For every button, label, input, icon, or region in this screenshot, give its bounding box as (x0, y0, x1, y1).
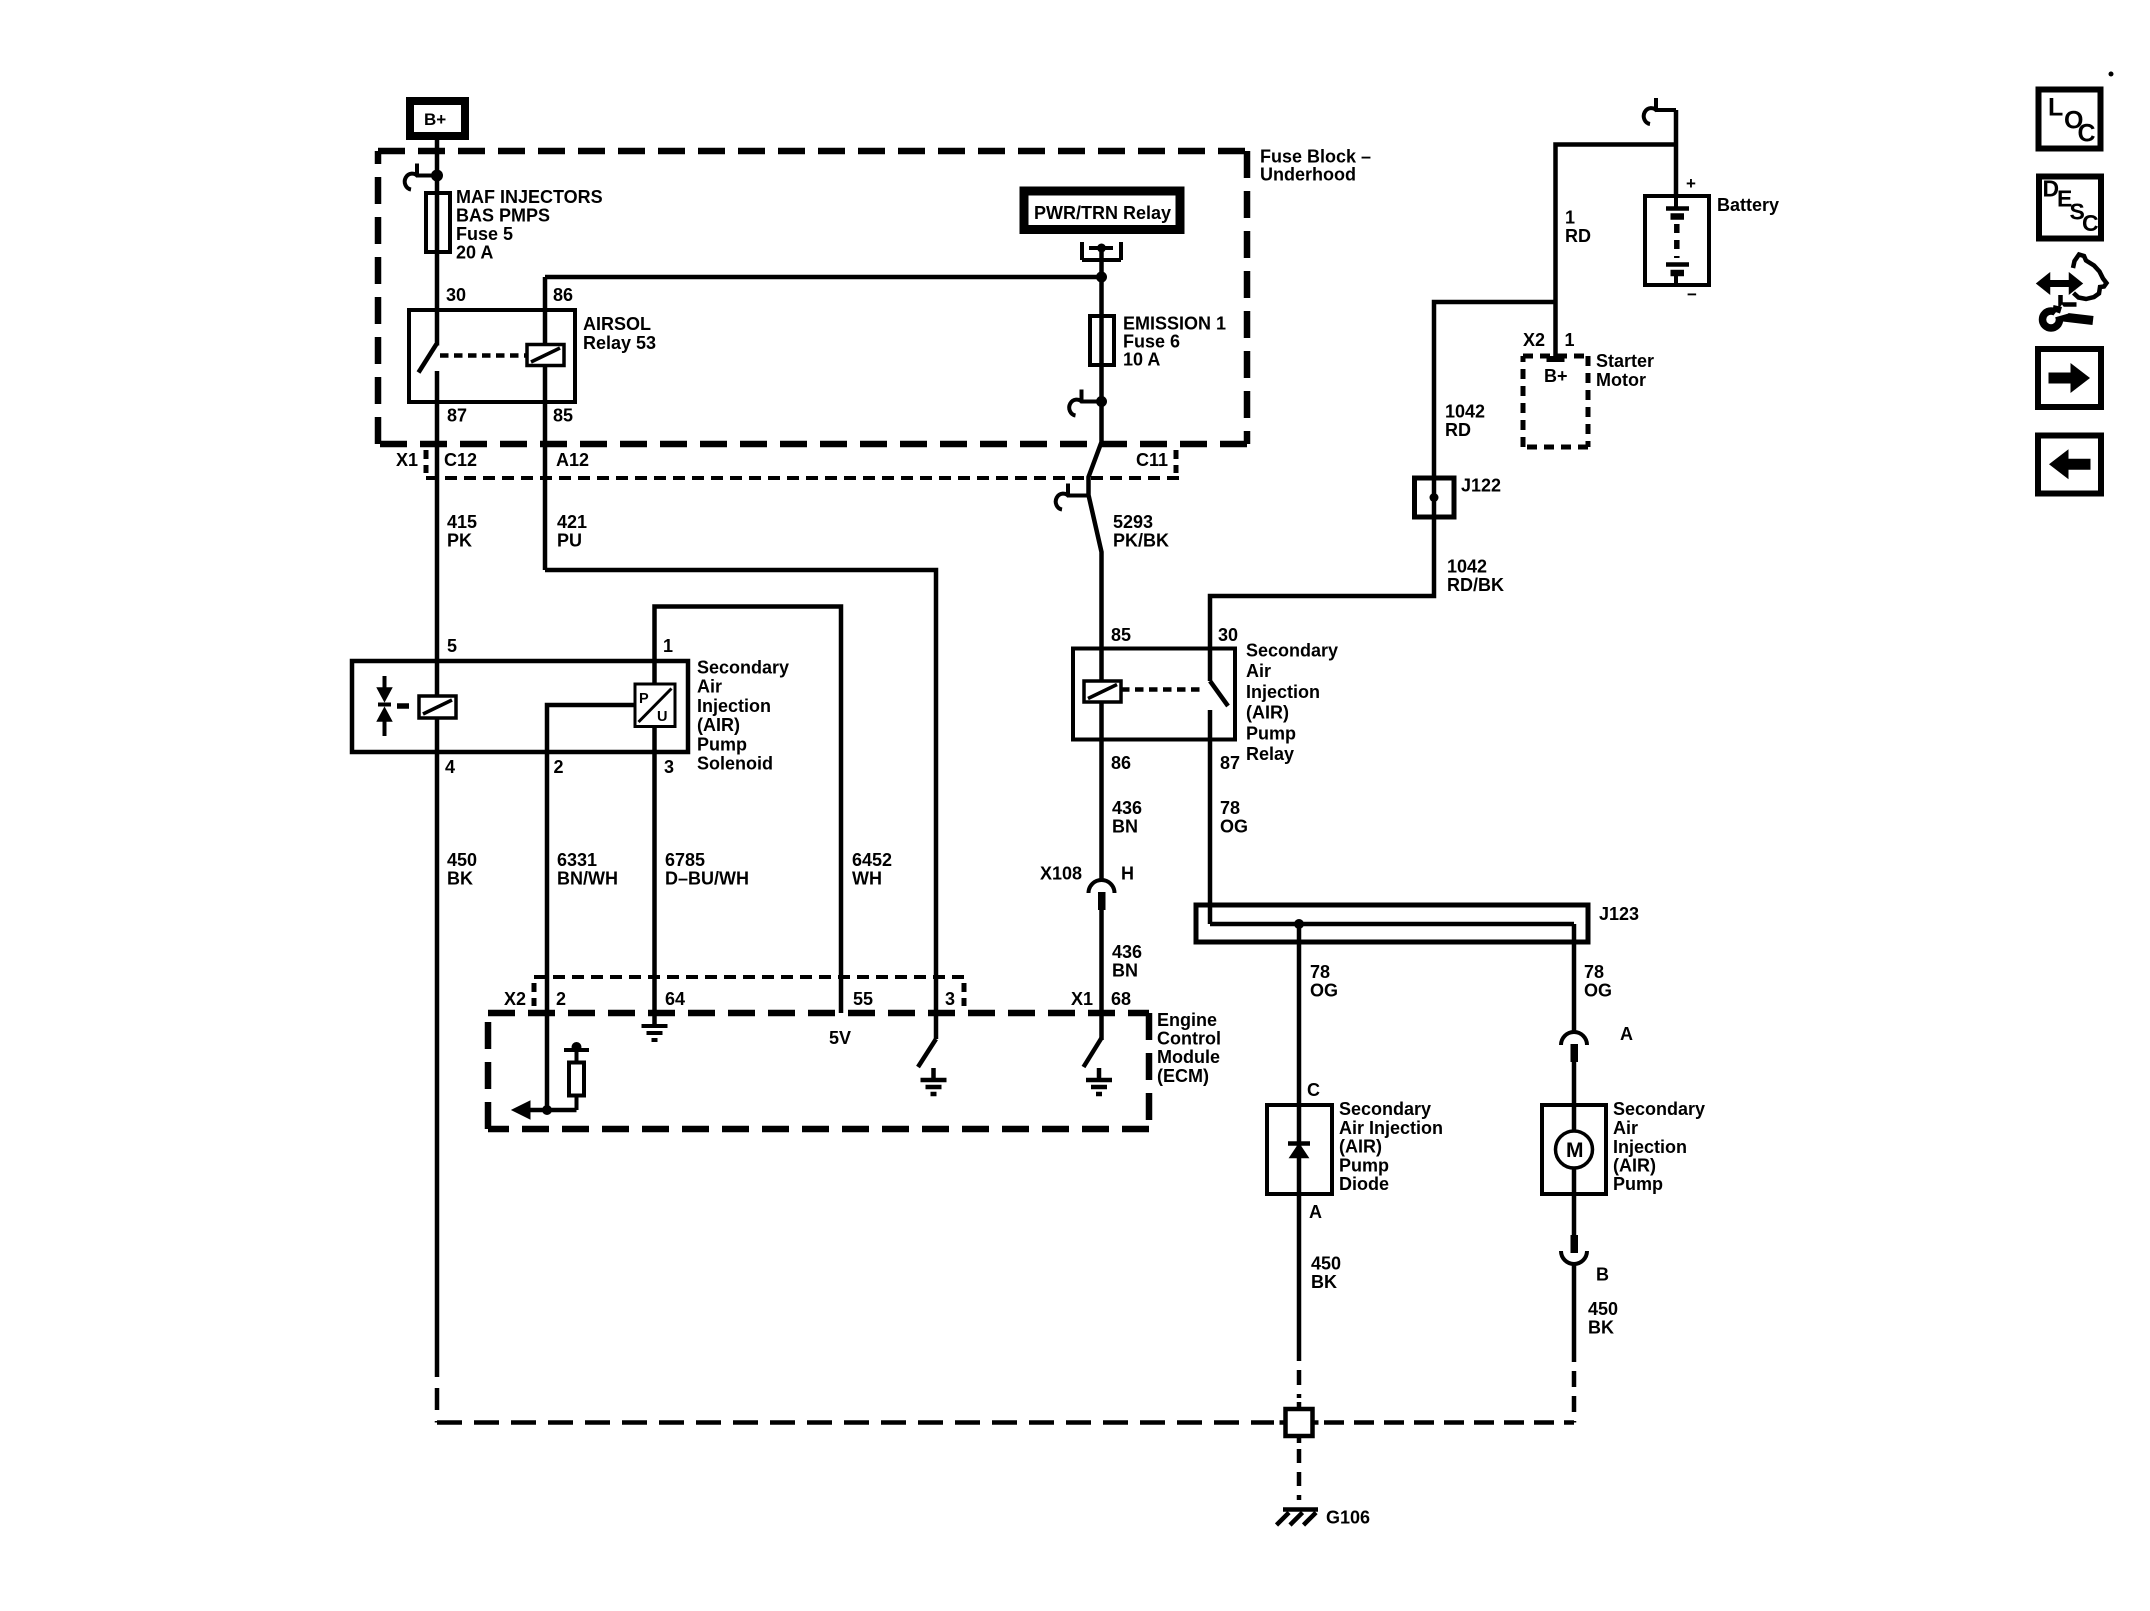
svg-text:C: C (2078, 120, 2096, 148)
svg-text:415: 415 (447, 512, 477, 532)
wire relay AIR pin 85 stub (1099, 647, 1104, 681)
inline connector X108 H (1089, 880, 1115, 893)
svg-text:30: 30 (1218, 625, 1238, 645)
svg-text:(ECM): (ECM) (1157, 1066, 1209, 1086)
icon DESC box (2039, 177, 2101, 239)
relay Secondary Air Injection (AIR) Pump Relay box (1073, 649, 1235, 740)
ECM connector X2 dotted separator left (532, 983, 537, 1006)
wire 78 OG J123 right branch down (1572, 924, 1577, 1031)
svg-text:1042: 1042 (1445, 402, 1485, 422)
fuse block underhood dashed box (378, 151, 1247, 444)
svg-text:85: 85 (553, 406, 573, 426)
wire 1 RD battery to starter motor (1556, 145, 1677, 357)
wire relay AIRSOL pin 85 down from coil (543, 366, 548, 571)
svg-text:RD: RD (1565, 226, 1591, 246)
svg-text:Solenoid: Solenoid (697, 754, 773, 774)
svg-text:J123: J123 (1599, 904, 1639, 924)
svg-text:6331: 6331 (557, 850, 597, 870)
connector row dashed line below X1 C12 A12 (426, 476, 1183, 480)
ground splice square G106 (1280, 1402, 1319, 1443)
relay AIRSOL coil dashed link (440, 353, 527, 358)
svg-text:Motor: Motor (1596, 370, 1646, 390)
svg-text:AIRSOL: AIRSOL (583, 314, 651, 334)
ECM Engine Control Module dashed box (488, 1013, 1149, 1129)
battery positive wire with clip terminal (1674, 110, 1679, 196)
svg-text:OG: OG (1584, 981, 1612, 1001)
svg-text:RD/BK: RD/BK (1447, 575, 1504, 595)
starter motor dashed box (1523, 356, 1588, 447)
svg-text:Secondary: Secondary (1246, 641, 1338, 661)
svg-text:436: 436 (1112, 942, 1142, 962)
svg-text:1: 1 (1565, 208, 1575, 228)
connector bracket under PWR/TRN relay (1082, 242, 1121, 260)
svg-text:BN/WH: BN/WH (557, 869, 618, 889)
svg-text:87: 87 (447, 406, 467, 426)
wire from fuse 5 to relay pin 30 (435, 252, 440, 346)
svg-text:6785: 6785 (665, 850, 705, 870)
svg-text:(AIR): (AIR) (1246, 703, 1289, 723)
svg-text:3: 3 (945, 989, 955, 1009)
svg-text:J122: J122 (1461, 476, 1501, 496)
junction dot PWR/TRN output (1097, 244, 1106, 253)
junction dot on B+ wire (431, 170, 443, 182)
wire relay AIR pin 87 stub (1208, 710, 1213, 741)
svg-text:Fuse 6: Fuse 6 (1123, 332, 1180, 352)
ground symbol ECM pin 3 (921, 1080, 947, 1094)
svg-text:Air: Air (1246, 661, 1271, 681)
wire into pump (1572, 1105, 1577, 1194)
battery component box (1645, 196, 1709, 285)
switch to ground ECM pin 3 (918, 1039, 936, 1079)
svg-text:450: 450 (1588, 1299, 1618, 1319)
wire 450 BK dashed to ground line (435, 1355, 440, 1423)
wire 450 BK diode dashed (1297, 1346, 1302, 1398)
svg-text:+: + (1686, 174, 1696, 193)
svg-text:5293: 5293 (1113, 512, 1153, 532)
svg-text:Pump: Pump (697, 734, 747, 754)
svg-text:C: C (2082, 210, 2099, 236)
splice J123 bus box (1196, 905, 1588, 942)
svg-text:A: A (1309, 1202, 1322, 1222)
svg-text:6452: 6452 (852, 850, 892, 870)
svg-text:EMISSION 1: EMISSION 1 (1123, 314, 1226, 334)
svg-text:5V: 5V (829, 1028, 851, 1048)
junction dot below fuse 6 (1096, 396, 1107, 407)
junction dot 86 feed (1096, 272, 1107, 283)
icon vehicle sketch with arrows and wrench (2037, 255, 2107, 329)
svg-text:Air: Air (1613, 1118, 1638, 1138)
svg-text:X1: X1 (396, 450, 418, 470)
wire relay AIR pin 86 stub (1099, 702, 1104, 741)
relay AIR pump dashed coil link (1121, 687, 1205, 692)
svg-text:4: 4 (445, 757, 455, 777)
wire 1042 RD/BK J122 down to relay pin 30 (1210, 517, 1434, 647)
motor M Secondary Air Injection (AIR) Pump box (1542, 1105, 1606, 1194)
svg-text:Fuse Block –: Fuse Block – (1260, 147, 1371, 167)
svg-text:Starter: Starter (1596, 351, 1654, 371)
ground bus dashed line left (437, 1420, 1274, 1425)
wire 450 BK below connector B (1572, 1265, 1577, 1347)
svg-text:85: 85 (1111, 625, 1131, 645)
svg-text:3: 3 (664, 757, 674, 777)
svg-text:BK: BK (1311, 1272, 1337, 1292)
svg-text:78: 78 (1584, 962, 1604, 982)
clip symbol on B+ wire (405, 164, 437, 190)
wire 5293 below fuse 6 (1089, 365, 1102, 647)
svg-text:BAS PMPS: BAS PMPS (456, 206, 550, 226)
svg-text:78: 78 (1310, 962, 1330, 982)
suppressor diode symbol inside solenoid (378, 676, 392, 736)
ground symbol ECM pin 64 (642, 1026, 668, 1040)
svg-text:450: 450 (1311, 1254, 1341, 1274)
connector row X1 dotted separator (424, 450, 429, 473)
wire connector A to pump (1572, 1062, 1577, 1105)
wire 450 BK pump dashed (1572, 1346, 1577, 1423)
inline connector B (1571, 1235, 1579, 1253)
svg-text:RD: RD (1445, 420, 1471, 440)
svg-text:C: C (1307, 1080, 1320, 1100)
wire 436 BN ECM pin 68 inside (1099, 1013, 1104, 1040)
svg-text:Fuse 5: Fuse 5 (456, 224, 513, 244)
svg-text:OG: OG (1220, 817, 1248, 837)
svg-text:87: 87 (1220, 753, 1240, 773)
svg-text:10 A: 10 A (1123, 350, 1160, 370)
svg-text:(AIR): (AIR) (1339, 1137, 1382, 1157)
svg-text:MAF INJECTORS: MAF INJECTORS (456, 187, 603, 207)
wire 86 feed horizontal to PWR/TRN relay output (545, 275, 1102, 280)
svg-text:78: 78 (1220, 798, 1240, 818)
svg-text:BN: BN (1112, 961, 1138, 981)
svg-text:Battery: Battery (1717, 195, 1779, 215)
svg-text:436: 436 (1112, 798, 1142, 818)
svg-text:Relay: Relay (1246, 744, 1294, 764)
svg-text:PK/BK: PK/BK (1113, 531, 1169, 551)
fuse F6 EMISSION 1 Fuse 6 10A (1090, 316, 1114, 365)
wire 1042 RD branch to J122 (1434, 302, 1556, 478)
svg-text:BK: BK (1588, 1318, 1614, 1338)
battery internal plates (1666, 196, 1689, 285)
svg-text:D–BU/WH: D–BU/WH (665, 869, 749, 889)
wire 436 BN relay 86 down to X108 (1099, 741, 1104, 879)
svg-text:U: U (657, 709, 667, 725)
svg-text:86: 86 (1111, 753, 1131, 773)
svg-text:Secondary: Secondary (1339, 1099, 1431, 1119)
wire 78 OG J123 to diode (1297, 924, 1302, 1105)
svg-text:20 A: 20 A (456, 243, 493, 263)
svg-text:C12: C12 (444, 450, 477, 470)
svg-text:55: 55 (853, 989, 873, 1009)
svg-text:A: A (1620, 1024, 1633, 1044)
svg-text:Air Injection: Air Injection (1339, 1118, 1443, 1138)
svg-text:−: − (1687, 285, 1697, 304)
svg-text:1042: 1042 (1447, 557, 1487, 577)
wire inside J123 (1210, 922, 1574, 927)
svg-text:H: H (1121, 864, 1134, 884)
dash link diode to solenoid coil (397, 703, 409, 709)
svg-text:Secondary: Secondary (697, 658, 789, 678)
svg-text:PWR/TRN Relay: PWR/TRN Relay (1034, 203, 1171, 223)
clip symbol battery feed (1644, 98, 1676, 124)
svg-text:P: P (639, 691, 649, 707)
dashed wire square to G106 (1297, 1449, 1302, 1500)
svg-text:B: B (1596, 1265, 1609, 1285)
svg-text:A12: A12 (556, 450, 589, 470)
svg-text:1: 1 (663, 636, 673, 656)
svg-text:Air: Air (697, 677, 722, 697)
svg-text:30: 30 (446, 285, 466, 305)
svg-text:B+: B+ (1544, 366, 1568, 386)
solenoid P/U pressure transducer box (635, 684, 675, 727)
svg-text:BK: BK (447, 869, 473, 889)
stray dot top right (2109, 72, 2114, 77)
svg-text:Engine: Engine (1157, 1010, 1217, 1030)
icon forward arrow (2049, 363, 2091, 393)
svg-text:Injection: Injection (697, 696, 771, 716)
svg-text:BN: BN (1112, 817, 1138, 837)
svg-text:X1: X1 (1071, 989, 1093, 1009)
icon forward arrow box (2038, 349, 2101, 407)
wire solenoid pin 1 up and over to ECM pin 55 (655, 607, 842, 1014)
wire 78 OG relay 87 down to J123 (1208, 741, 1213, 924)
svg-text:Pump: Pump (1339, 1155, 1389, 1175)
svg-text:X2: X2 (504, 989, 526, 1009)
svg-text:(AIR): (AIR) (1613, 1156, 1656, 1176)
ground symbol ECM pin 68 (1086, 1080, 1112, 1094)
relay AIRSOL coil (527, 345, 564, 366)
ground symbol G106 (1277, 1510, 1319, 1526)
svg-text:L: L (2048, 94, 2063, 122)
ECM connector X2 dashed line (534, 975, 964, 979)
svg-text:M: M (1566, 1139, 1584, 1162)
svg-text:68: 68 (1111, 989, 1131, 1009)
icon LOC box (2039, 90, 2101, 149)
svg-text:Injection: Injection (1246, 682, 1320, 702)
svg-text:C11: C11 (1136, 450, 1168, 470)
svg-text:WH: WH (852, 869, 882, 889)
wire 450 BK solenoid pin 4 down (435, 752, 440, 1355)
svg-text:PK: PK (447, 531, 472, 551)
wire PWR/TRN output down (1099, 248, 1104, 316)
relay AIR pump switch blade (1210, 647, 1228, 706)
diode Secondary Air Injection (AIR) Pump Diode box (1267, 1105, 1332, 1194)
arrow to other circuits inside ECM (530, 1108, 577, 1113)
clip symbol below fuse 6 (1069, 390, 1101, 416)
svg-text:Control: Control (1157, 1029, 1221, 1049)
connector row C11 dotted separator (1174, 450, 1179, 473)
wire through diode box (1297, 1105, 1302, 1194)
wire 415 PK relay pin 87 down (435, 371, 440, 661)
svg-text:64: 64 (665, 989, 685, 1009)
svg-text:Underhood: Underhood (1260, 165, 1356, 185)
svg-text:5: 5 (447, 636, 457, 656)
svg-text:Injection: Injection (1613, 1137, 1687, 1157)
switch to ground ECM pin 68 (1084, 1038, 1102, 1079)
svg-text:86: 86 (553, 285, 573, 305)
wire relay AIRSOL pin 86 up (543, 277, 548, 345)
wire solenoid pin 5 through coil to pin 4 (435, 661, 440, 752)
svg-text:Relay 53: Relay 53 (583, 333, 656, 353)
relay AIRSOL Relay 53 box (409, 310, 575, 402)
relay AIRSOL switch blade pin 30 to 87 (419, 344, 437, 373)
svg-text:Secondary: Secondary (1613, 1099, 1705, 1119)
ECM connector X2 dotted separator right (962, 983, 967, 1006)
resistor inside ECM (564, 1050, 589, 1110)
wire 421 PU elbow to ECM pin 3 (545, 570, 936, 1013)
icon back arrow (2049, 449, 2091, 479)
clip symbol at C11 (1056, 484, 1088, 510)
diode symbol (1288, 1144, 1310, 1158)
svg-text:Module: Module (1157, 1047, 1220, 1067)
fuse F5 MAF INJECTORS BAS PMPS Fuse 5 20A (426, 193, 450, 252)
relay AIR pump coil (1084, 681, 1121, 702)
svg-text:421: 421 (557, 512, 587, 532)
wire 436 BN X108 to ECM pin 68 (1099, 910, 1104, 1013)
wire solenoid pin 3 P/U down to ECM pin 64 (652, 727, 657, 1027)
svg-text:Pump: Pump (1246, 723, 1296, 743)
solenoid coil on wire 4-5 (419, 696, 456, 718)
svg-text:2: 2 (556, 989, 566, 1009)
svg-text:OG: OG (1310, 981, 1338, 1001)
junction dot resistor top (572, 1042, 582, 1052)
junction dot J122 (1430, 493, 1439, 502)
svg-text:X2: X2 (1523, 330, 1545, 350)
svg-text:Diode: Diode (1339, 1174, 1389, 1194)
ground bus dashed line right (1324, 1420, 1574, 1425)
svg-text:2: 2 (554, 757, 564, 777)
wire 450 BK diode down (1297, 1194, 1302, 1346)
svg-text:X108: X108 (1040, 864, 1082, 884)
svg-text:G106: G106 (1326, 1508, 1370, 1528)
node B+ battery feed box (410, 101, 465, 136)
starter motor terminal bar (1547, 356, 1565, 362)
svg-text:(AIR): (AIR) (697, 715, 740, 735)
icon back arrow box (2038, 436, 2101, 494)
splice J122 box (1415, 478, 1455, 517)
svg-text:Pump: Pump (1613, 1174, 1663, 1194)
wire B+ feed down from B+ box to fuse 5 (435, 139, 440, 193)
wire 450 BK pump down (1572, 1194, 1577, 1235)
wire solenoid pin 2 from P/U left side down (547, 705, 635, 1110)
solenoid Secondary Air Injection (AIR) Pump Solenoid box (352, 661, 688, 752)
junction dot J123 (1294, 919, 1304, 929)
wire through J122 (1432, 478, 1437, 517)
wire stub ECM pin 3 (934, 1013, 939, 1039)
svg-text:PU: PU (557, 531, 582, 551)
svg-text:1: 1 (1565, 330, 1575, 350)
junction dot ECM pin 2 net (542, 1105, 552, 1115)
relay PWR/TRN box (1024, 191, 1180, 230)
svg-text:450: 450 (447, 850, 477, 870)
svg-text:B+: B+ (424, 110, 446, 129)
motor circle M (1556, 1131, 1593, 1168)
inline connector A (1561, 1032, 1587, 1045)
